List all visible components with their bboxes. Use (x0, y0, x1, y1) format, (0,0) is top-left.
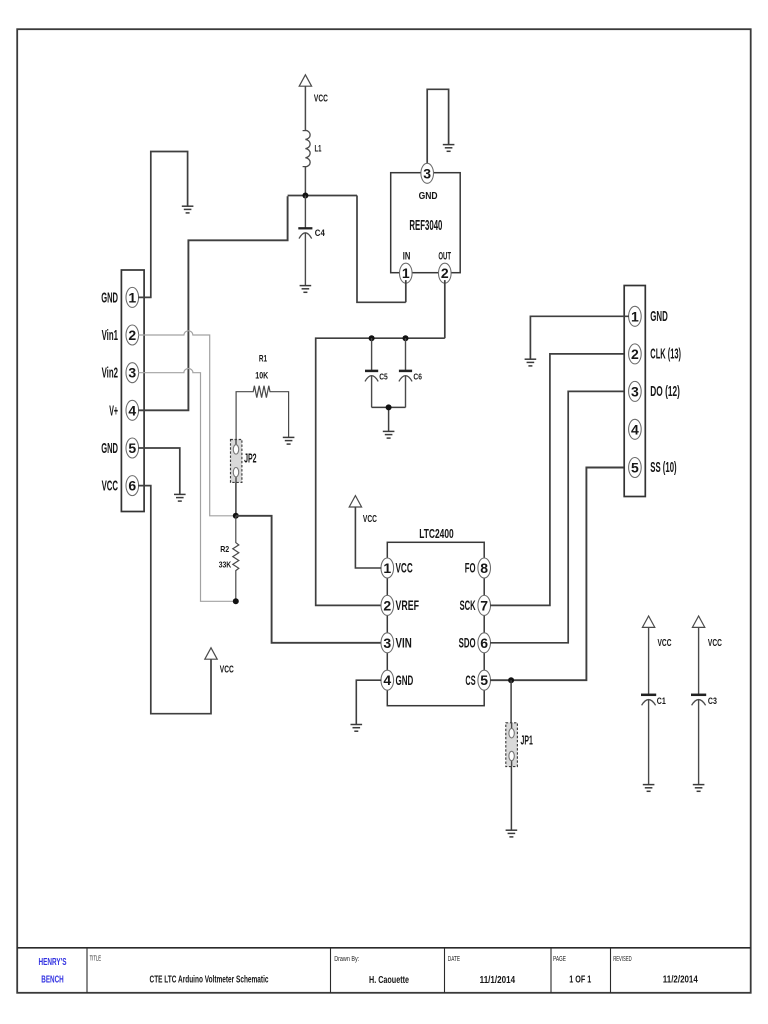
wire VREF rail to LTC2400 VREF (316, 338, 445, 605)
svg-text:3: 3 (128, 365, 136, 381)
svg-text:GND: GND (650, 309, 668, 325)
svg-text:2: 2 (441, 265, 449, 281)
svg-text:C5: C5 (379, 372, 388, 382)
svg-text:VCC: VCC (314, 93, 328, 104)
wire Vin2 (gray) to R2 bottom (138, 369, 233, 602)
node junction C5/C6 ground (386, 404, 392, 410)
power symbol VCC (left, pin6) (205, 648, 234, 676)
svg-text:SS (10): SS (10) (650, 460, 676, 476)
ground (LTC2400 GND) (351, 725, 363, 732)
svg-text:Vin1: Vin1 (102, 328, 118, 344)
wire pin4 GND to ground (356, 680, 381, 724)
svg-text:4: 4 (383, 672, 391, 688)
pin 2 circle (629, 344, 642, 364)
svg-text:1 OF 1: 1 OF 1 (569, 973, 591, 985)
ground (C5/C6) (383, 431, 395, 438)
svg-text:REF3040: REF3040 (409, 217, 442, 234)
svg-text:C3: C3 (708, 696, 717, 706)
resistor R1 10K (236, 353, 289, 439)
wire JP2 to junction (235, 482, 237, 515)
svg-text:33K: 33K (219, 560, 232, 570)
ground (C1) (643, 785, 655, 792)
svg-text:LTC2400: LTC2400 (419, 526, 454, 541)
wire pin6 VCC to VCC arrow (138, 486, 211, 714)
wire L1 to junction (304, 167, 306, 196)
svg-text:R2: R2 (220, 544, 229, 554)
inductor L1 (303, 130, 322, 167)
connector J2 body (121, 270, 144, 512)
svg-text:DATE: DATE (448, 956, 461, 963)
svg-text:4: 4 (631, 421, 639, 437)
svg-text:5: 5 (631, 460, 639, 476)
svg-text:11/2/2014: 11/2/2014 (663, 973, 698, 985)
svg-text:BENCH: BENCH (41, 973, 64, 985)
pin 8 FO (478, 558, 491, 578)
pin 4 circle (629, 419, 642, 439)
wire C5/C6 bottoms to ground (372, 407, 406, 431)
svg-text:VIN: VIN (396, 634, 412, 650)
pin 1 circle (126, 287, 139, 307)
IC U2 LTC2400 body (387, 526, 484, 706)
pin 1 (REF3040 IN) (400, 263, 413, 283)
capacitor C4 (298, 196, 325, 286)
power symbol VCC (C1) (642, 616, 671, 649)
svg-text:4: 4 (128, 402, 136, 418)
wire SCK to CLK(13) (490, 354, 629, 606)
svg-text:2: 2 (631, 346, 639, 362)
svg-text:FO: FO (465, 560, 476, 576)
svg-text:11/1/2014: 11/1/2014 (480, 974, 516, 986)
svg-text:10K: 10K (255, 370, 268, 380)
capacitor C1 (641, 627, 666, 784)
svg-text:8: 8 (480, 560, 488, 576)
svg-text:VCC: VCC (363, 514, 377, 525)
ground (REF3040 pin3) (443, 145, 455, 152)
pin 4 circle (126, 400, 139, 420)
pin 1 circle (629, 306, 642, 326)
svg-text:VCC: VCC (396, 560, 413, 576)
wire VCC arrow to pin1 (355, 507, 381, 568)
node R2 bottom (233, 598, 239, 604)
svg-text:CTE LTC Arduino Voltmeter Sche: CTE LTC Arduino Voltmeter Schematic (150, 974, 269, 986)
svg-text:2: 2 (128, 327, 136, 343)
ground (R1 right) (283, 437, 295, 444)
svg-text:Vin2: Vin2 (102, 366, 118, 382)
svg-text:OUT: OUT (438, 251, 451, 263)
svg-text:GND: GND (101, 441, 118, 457)
jumper JP2 (231, 440, 257, 483)
wire junction to LTC2400 VIN (236, 516, 381, 643)
wire CS to SS(10) (490, 468, 629, 681)
svg-text:5: 5 (128, 440, 136, 456)
svg-text:2: 2 (383, 597, 391, 613)
svg-text:6: 6 (128, 478, 136, 494)
svg-text:3: 3 (631, 383, 639, 399)
wire JP1 to ground (510, 767, 512, 830)
svg-text:C1: C1 (657, 696, 666, 706)
svg-text:HENRY'S: HENRY'S (39, 956, 67, 968)
capacitor C3 (691, 627, 717, 784)
svg-text:GND: GND (419, 190, 438, 202)
pin 2 circle (126, 325, 139, 345)
wire pin1 GND to ground (138, 152, 187, 298)
svg-text:VCC: VCC (658, 638, 672, 649)
svg-text:3: 3 (423, 165, 431, 181)
wire right pin1 GND to ground (530, 316, 629, 359)
power symbol VCC (C3) (692, 616, 722, 649)
wire REF3040 pin3 to ground (427, 89, 448, 166)
wire pin5 GND to ground (138, 448, 180, 494)
pin 3 (REF3040 GND) (421, 163, 434, 183)
pin 2 VREF (381, 595, 394, 615)
wire REF3040 OUT down to VREF rail (444, 280, 446, 338)
svg-text:GND: GND (396, 672, 414, 688)
svg-text:VCC: VCC (708, 638, 722, 649)
svg-text:CLK (13): CLK (13) (650, 346, 681, 362)
ground (right connector pin1) (525, 359, 537, 366)
svg-text:H. Caouette: H. Caouette (369, 974, 409, 986)
node junction L1/C4 (302, 193, 308, 199)
node junction C6 tap (403, 335, 409, 341)
svg-text:SDO: SDO (459, 634, 476, 650)
svg-text:PAGE: PAGE (553, 956, 566, 963)
pin 6 SDO (478, 633, 491, 653)
pin 7 SCK (478, 595, 491, 615)
svg-text:CS: CS (465, 672, 475, 688)
wire junction rail to REF3040 IN (357, 196, 406, 303)
voltage reference U1 REF3040 (391, 173, 461, 273)
node junction C5 tap (369, 335, 375, 341)
capacitor C5 (365, 338, 388, 407)
svg-text:1: 1 (128, 289, 136, 305)
svg-text:5: 5 (480, 672, 488, 688)
pin 5 circle (126, 438, 139, 458)
ground (left pin1) (182, 206, 194, 213)
svg-text:R1: R1 (259, 353, 267, 363)
svg-text:L1: L1 (315, 143, 322, 154)
ground (left pin5) (174, 494, 186, 501)
svg-text:3: 3 (383, 635, 391, 651)
node junction CS/JP1 (508, 677, 514, 683)
pin 5 CS (478, 670, 491, 690)
wire SDO to DO(12) (490, 391, 629, 642)
svg-text:7: 7 (480, 597, 488, 613)
pin 4 GND (381, 670, 394, 690)
svg-text:V+: V+ (109, 403, 118, 419)
ground (JP1) (506, 830, 518, 837)
svg-text:1: 1 (631, 308, 639, 324)
capacitor C6 (399, 338, 422, 407)
svg-text:1: 1 (402, 265, 410, 281)
pin 3 circle (126, 363, 139, 383)
pin 5 circle (629, 458, 642, 478)
svg-text:JP1: JP1 (521, 732, 533, 747)
svg-text:TITLE: TITLE (90, 956, 102, 963)
pin 2 (REF3040 OUT) (439, 263, 452, 283)
svg-text:JP2: JP2 (244, 451, 257, 466)
svg-text:C4: C4 (315, 228, 325, 238)
node junction below JP2 (233, 513, 239, 519)
svg-text:DO (12): DO (12) (650, 384, 680, 400)
svg-text:VCC: VCC (220, 665, 234, 676)
wire Vin1 (gray) to JP2 junction (138, 331, 233, 516)
svg-text:IN: IN (403, 251, 411, 263)
svg-text:C6: C6 (413, 372, 422, 382)
pin 3 circle (629, 381, 642, 401)
ground (C3) (693, 785, 705, 792)
svg-text:GND: GND (101, 290, 118, 306)
pin 6 circle (126, 476, 139, 496)
pin 3 VIN (381, 633, 394, 653)
svg-text:SCK: SCK (460, 597, 476, 613)
wire horizontal rail at y=195.5 (288, 195, 357, 197)
jumper JP1 (506, 680, 533, 766)
svg-text:6: 6 (480, 635, 488, 651)
wire pin4 V+ up to L1/C4 junction rail (138, 196, 287, 410)
svg-text:VCC: VCC (102, 479, 119, 495)
resistor R2 33K (219, 516, 239, 602)
pin 1 VCC (381, 558, 394, 578)
power symbol VCC (top, feeds L1) (299, 75, 328, 131)
connector J1 body (624, 286, 645, 497)
svg-text:REVISED: REVISED (613, 956, 632, 963)
svg-text:VREF: VREF (396, 597, 420, 613)
svg-text:Drawn By:: Drawn By: (334, 956, 359, 963)
svg-text:1: 1 (383, 560, 391, 576)
power symbol VCC (LTC2400) (349, 496, 377, 525)
ground (below C4) (300, 286, 312, 293)
